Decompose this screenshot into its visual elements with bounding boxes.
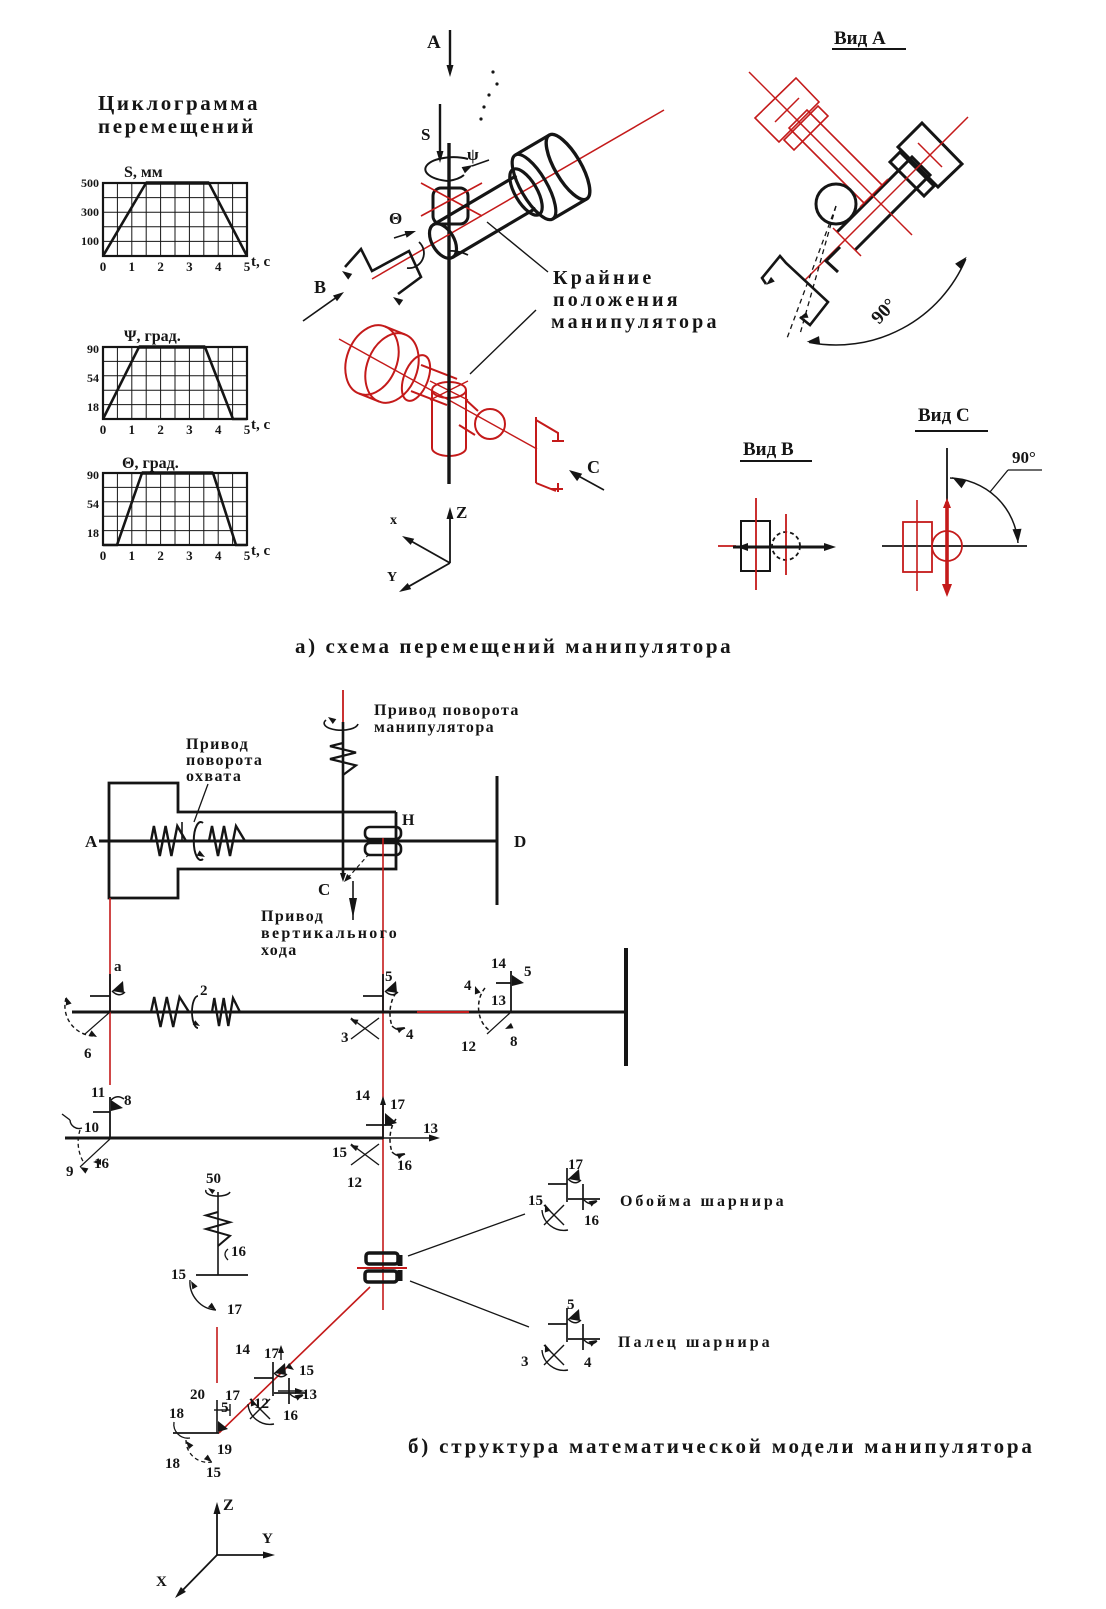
svg-text:Y: Y [262, 1531, 273, 1547]
svg-text:Z: Z [223, 1497, 234, 1514]
svg-text:18: 18 [87, 526, 99, 540]
svg-text:хода: хода [261, 942, 298, 959]
svg-text:90°: 90° [1012, 448, 1036, 467]
svg-text:5: 5 [244, 259, 251, 274]
svg-text:1: 1 [129, 259, 136, 274]
svg-text:0: 0 [100, 548, 107, 563]
svg-text:Ψ, град.: Ψ, град. [124, 328, 181, 345]
svg-text:3: 3 [186, 548, 193, 563]
svg-text:Z: Z [456, 503, 467, 522]
svg-text:9: 9 [66, 1164, 74, 1180]
svg-text:15: 15 [206, 1465, 221, 1481]
svg-text:Вид А: Вид А [834, 28, 886, 49]
svg-text:0: 0 [100, 422, 107, 437]
svg-text:8: 8 [510, 1034, 518, 1050]
svg-text:500: 500 [81, 176, 99, 190]
svg-text:0: 0 [100, 259, 107, 274]
svg-text:S: S [421, 125, 430, 144]
svg-text:3: 3 [521, 1354, 529, 1370]
svg-text:2: 2 [157, 259, 164, 274]
svg-text:12: 12 [461, 1039, 476, 1055]
svg-text:а) схема перемещений манипулят: а) схема перемещений манипулятора [295, 634, 733, 658]
svg-text:2: 2 [157, 422, 164, 437]
svg-text:Привод поворота: Привод поворота [374, 702, 520, 719]
svg-text:13: 13 [491, 993, 506, 1009]
svg-text:90: 90 [87, 468, 99, 482]
svg-text:16: 16 [283, 1408, 299, 1424]
svg-text:15: 15 [299, 1363, 314, 1379]
svg-text:16: 16 [94, 1156, 110, 1172]
svg-text:3: 3 [186, 422, 193, 437]
svg-text:16: 16 [584, 1213, 600, 1229]
svg-text:Вид В: Вид В [743, 439, 794, 460]
svg-text:Привод: Привод [186, 736, 249, 753]
svg-text:Θ: Θ [389, 209, 402, 228]
svg-text:t, c: t, c [251, 254, 270, 270]
svg-text:15: 15 [171, 1267, 186, 1283]
svg-text:Привод: Привод [261, 908, 324, 925]
svg-text:ψ: ψ [467, 145, 479, 164]
svg-text:вертикального: вертикального [261, 925, 399, 942]
svg-text:16: 16 [397, 1158, 413, 1174]
svg-text:20: 20 [190, 1387, 205, 1403]
svg-text:5: 5 [567, 1297, 575, 1313]
svg-text:t, c: t, c [251, 543, 270, 559]
svg-text:5: 5 [244, 422, 251, 437]
svg-text:Палец шарнира: Палец шарнира [618, 1334, 773, 1351]
svg-text:5: 5 [221, 1400, 229, 1416]
svg-text:17: 17 [227, 1302, 243, 1318]
svg-text:С: С [318, 880, 330, 899]
svg-text:4: 4 [215, 259, 222, 274]
svg-text:2: 2 [200, 983, 208, 999]
svg-text:14: 14 [491, 956, 507, 972]
svg-text:Крайние: Крайние [553, 267, 654, 289]
svg-text:4: 4 [584, 1355, 592, 1371]
svg-text:х: х [390, 513, 397, 528]
svg-text:50: 50 [206, 1171, 221, 1187]
svg-text:D: D [514, 832, 526, 851]
svg-text:3: 3 [341, 1030, 349, 1046]
svg-text:4: 4 [215, 548, 222, 563]
svg-text:t, c: t, c [251, 417, 270, 433]
svg-text:11: 11 [91, 1085, 105, 1101]
svg-text:В: В [314, 277, 326, 297]
svg-text:18: 18 [87, 400, 99, 414]
svg-text:100: 100 [81, 234, 99, 248]
svg-text:манипулятора: манипулятора [551, 311, 720, 333]
svg-text:a: a [114, 959, 122, 975]
svg-text:поворота: поворота [186, 752, 263, 769]
svg-text:охвата: охвата [186, 768, 242, 785]
svg-text:12: 12 [347, 1175, 362, 1191]
svg-text:1: 1 [129, 422, 136, 437]
svg-text:4: 4 [406, 1027, 414, 1043]
svg-text:1: 1 [129, 548, 136, 563]
svg-text:2: 2 [157, 548, 164, 563]
svg-text:А: А [85, 832, 98, 851]
svg-text:4: 4 [464, 978, 472, 994]
svg-text:манипулятора: манипулятора [374, 719, 495, 736]
svg-text:15: 15 [332, 1145, 347, 1161]
svg-text:Y: Y [387, 570, 397, 585]
svg-text:4: 4 [215, 422, 222, 437]
svg-text:54: 54 [87, 371, 99, 385]
svg-text:54: 54 [87, 497, 99, 511]
svg-text:S, мм: S, мм [124, 164, 163, 181]
svg-text:16: 16 [231, 1244, 247, 1260]
svg-text:17: 17 [390, 1097, 406, 1113]
svg-text:10: 10 [84, 1120, 99, 1136]
svg-text:б) структура математической мо: б) структура математической модели манип… [408, 1434, 1035, 1458]
svg-text:Обойма шарнира: Обойма шарнира [620, 1193, 787, 1210]
svg-text:14: 14 [355, 1088, 371, 1104]
svg-text:Циклограмма: Циклограмма [98, 91, 260, 115]
svg-text:12: 12 [254, 1396, 269, 1412]
svg-text:18: 18 [169, 1406, 184, 1422]
svg-text:5: 5 [524, 964, 532, 980]
svg-text:Вид С: Вид С [918, 405, 970, 426]
svg-text:перемещений: перемещений [98, 114, 256, 138]
svg-text:17: 17 [568, 1157, 584, 1173]
svg-text:5: 5 [385, 969, 393, 985]
svg-text:13: 13 [423, 1121, 438, 1137]
svg-text:6: 6 [84, 1046, 92, 1062]
svg-text:18: 18 [165, 1456, 180, 1472]
svg-text:X: X [156, 1574, 167, 1590]
svg-text:300: 300 [81, 205, 99, 219]
svg-text:3: 3 [186, 259, 193, 274]
svg-text:14: 14 [235, 1342, 251, 1358]
svg-text:13: 13 [302, 1387, 317, 1403]
svg-text:A: A [427, 32, 441, 53]
svg-text:Θ, град.: Θ, град. [122, 455, 179, 472]
svg-text:C: C [587, 457, 600, 477]
svg-text:8: 8 [124, 1093, 132, 1109]
svg-text:17: 17 [264, 1346, 280, 1362]
svg-text:15: 15 [528, 1193, 543, 1209]
svg-text:5: 5 [244, 548, 251, 563]
svg-text:Н: Н [402, 812, 415, 829]
svg-text:положения: положения [553, 289, 681, 311]
svg-text:19: 19 [217, 1442, 232, 1458]
svg-text:90: 90 [87, 342, 99, 356]
